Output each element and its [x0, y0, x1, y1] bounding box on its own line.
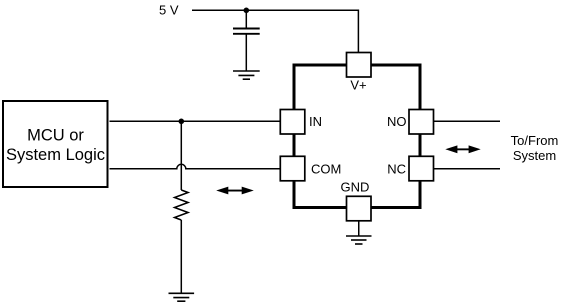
svg-text:System: System: [513, 148, 556, 163]
svg-text:To/From: To/From: [511, 133, 559, 148]
svg-text:5 V: 5 V: [159, 2, 179, 17]
svg-text:NO: NO: [387, 114, 407, 129]
svg-text:IN: IN: [309, 114, 322, 129]
svg-text:GND: GND: [341, 180, 370, 195]
svg-text:COM: COM: [311, 162, 341, 177]
svg-text:MCU or: MCU or: [27, 127, 84, 145]
svg-text:V+: V+: [350, 78, 366, 93]
svg-text:System Logic: System Logic: [6, 146, 105, 164]
svg-text:NC: NC: [387, 162, 406, 177]
